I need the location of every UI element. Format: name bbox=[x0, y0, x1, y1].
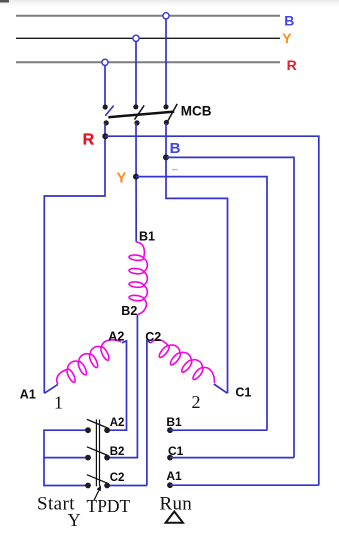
wire B1 to Y rail bbox=[170, 429, 267, 431]
svg-text:B: B bbox=[170, 140, 181, 157]
TPDT pole A2 left contact bbox=[85, 427, 91, 433]
MCB pole 3 top terminal bbox=[163, 104, 168, 109]
svg-text:C1: C1 bbox=[235, 386, 251, 400]
svg-text:A2: A2 bbox=[108, 329, 124, 343]
TPDT linkage bar bbox=[95, 420, 97, 487]
svg-text:R: R bbox=[83, 131, 95, 148]
wire A1 lead bbox=[44, 384, 58, 393]
wire R phase drop bbox=[104, 66, 106, 105]
bus line B bbox=[16, 15, 280, 17]
TPDT star bracket middle wire bbox=[44, 457, 88, 459]
svg-text:Y: Y bbox=[68, 510, 81, 530]
wire C2 lead from corner bbox=[147, 341, 151, 486]
stray dash artifact bbox=[172, 169, 178, 171]
TPDT pole A2 right contact bbox=[104, 427, 110, 433]
svg-text:B1: B1 bbox=[139, 229, 155, 243]
wire R phase below MCB to left corner bbox=[44, 123, 105, 393]
bus line Y bbox=[16, 37, 280, 39]
delta symbol bbox=[166, 512, 183, 523]
svg-text:C2: C2 bbox=[145, 330, 161, 344]
svg-text:A1: A1 bbox=[20, 388, 36, 402]
MCB pole 1 bottom terminal bbox=[104, 120, 109, 125]
svg-text:Y: Y bbox=[282, 30, 292, 46]
run terminal C1 bbox=[167, 455, 173, 461]
wire C2 horizontal to TPDT bbox=[107, 485, 147, 487]
MCB linkage bar bbox=[108, 112, 174, 118]
svg-text:C1: C1 bbox=[168, 444, 184, 458]
MCB pole 2 blade bbox=[135, 105, 145, 119]
svg-text:A2: A2 bbox=[110, 417, 125, 429]
svg-text:C2: C2 bbox=[110, 472, 125, 484]
MCB pole 1 blade bbox=[105, 106, 113, 116]
wire B phase drop bbox=[165, 19, 167, 105]
MCB pole 3 blade bbox=[168, 104, 177, 121]
wire A2 lead and drop to TPDT bbox=[107, 341, 126, 430]
TPDT actuator arrow bbox=[94, 491, 99, 501]
node R bbox=[102, 133, 108, 139]
tap node on Y bus bbox=[133, 35, 139, 41]
run terminal B1 bbox=[167, 427, 173, 433]
svg-text:MCB: MCB bbox=[181, 103, 212, 118]
svg-text:B1: B1 bbox=[166, 415, 182, 429]
winding 2 (C2-C1 coil) bbox=[147, 334, 220, 390]
winding B (B1-B2 coil) bbox=[129, 242, 147, 315]
wire Y node to right rail bbox=[136, 177, 267, 431]
TPDT pole B2 blade bbox=[87, 447, 108, 456]
MCB pole 1 top terminal bbox=[103, 104, 108, 109]
svg-text:2: 2 bbox=[192, 392, 201, 412]
wire C1 to B rail bbox=[170, 457, 294, 459]
wire R node to right rail bbox=[105, 136, 319, 485]
svg-text:A1: A1 bbox=[166, 469, 182, 483]
svg-text:Y: Y bbox=[116, 170, 126, 187]
TPDT linkage bar second line bbox=[99, 420, 101, 487]
wire B node to right rail bbox=[166, 157, 294, 457]
run terminal A1 bbox=[167, 482, 173, 488]
node B bbox=[163, 154, 169, 160]
TPDT star bracket wire bbox=[44, 430, 88, 485]
winding 1 (A2-A1 coil) bbox=[52, 333, 126, 390]
MCB pole 2 top terminal bbox=[133, 104, 138, 109]
bus line R bbox=[16, 61, 280, 63]
MCB pole 2 bottom terminal bbox=[134, 120, 139, 125]
TPDT pole C2 left contact bbox=[85, 483, 91, 489]
wire Y phase drop bbox=[135, 42, 137, 105]
svg-text:Run: Run bbox=[160, 493, 193, 514]
svg-text:TPDT: TPDT bbox=[87, 496, 131, 516]
node Y bbox=[133, 174, 139, 180]
TPDT pole C2 blade bbox=[87, 475, 108, 484]
svg-text:B: B bbox=[284, 12, 294, 28]
wire B phase below MCB to right corner bbox=[166, 123, 228, 393]
svg-text:B2: B2 bbox=[110, 446, 125, 458]
MCB pole 3 bottom terminal bbox=[164, 120, 169, 125]
wire A1 to R rail bbox=[170, 484, 319, 486]
svg-text:1: 1 bbox=[54, 393, 63, 413]
wire C1 lead bbox=[214, 384, 228, 393]
TPDT pole B2 right contact bbox=[104, 455, 110, 461]
svg-text:R: R bbox=[287, 57, 297, 73]
tap node on R bus bbox=[102, 59, 108, 65]
TPDT pole A2 blade bbox=[87, 419, 108, 428]
TPDT pole C2 right contact bbox=[104, 483, 110, 489]
tap node on B bus bbox=[163, 13, 169, 19]
wire Y phase below MCB down to winding B1 bbox=[135, 123, 137, 242]
TPDT pole B2 left contact bbox=[85, 455, 91, 461]
wire B2 to TPDT bbox=[107, 315, 137, 458]
svg-text:B2: B2 bbox=[121, 304, 137, 318]
